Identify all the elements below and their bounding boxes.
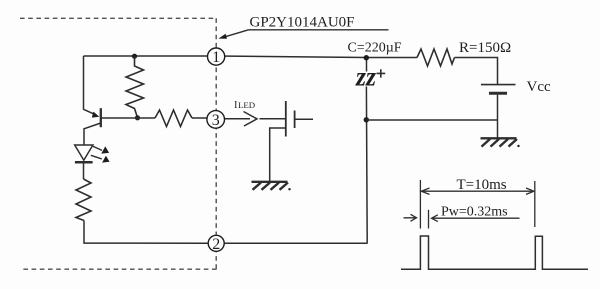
transistor Q1 emitter arrowhead (92, 112, 100, 118)
ground left bar (252, 181, 288, 183)
sensor boundary dashed bottom (23, 268, 217, 270)
wire junction to battery leg (367, 119, 498, 121)
LED D1 triangle (75, 145, 93, 160)
pin 3 circle (207, 111, 225, 129)
sensor boundary dashed vertical (215, 18, 217, 269)
transistor Q1 emitter (84, 109, 97, 115)
wire R2 to pin3 (192, 117, 208, 119)
resistor R2 base (155, 110, 192, 127)
svg-text:R=150Ω: R=150Ω (459, 40, 511, 56)
capacitor C1 plus sign (377, 69, 386, 77)
node junction dot base (135, 115, 140, 120)
node junction dot C top (364, 55, 369, 60)
capacitor C1 top lead (366, 58, 368, 72)
ground right bar (481, 137, 517, 139)
node junction dot mid (364, 117, 369, 122)
battery BT1 long plate (481, 84, 516, 86)
wire arrow to Q2 gate (260, 118, 286, 120)
T arrowhead right (526, 188, 534, 194)
ILED arrowhead open (244, 112, 258, 127)
Pw arrow right-pointing (404, 214, 417, 221)
svg-text:LED: LED (238, 100, 255, 110)
LED D1 emission arrow 2 (91, 155, 102, 159)
svg-text:3: 3 (212, 112, 220, 129)
svg-text:C=220µF: C=220µF (348, 41, 402, 56)
resistor R3 (76, 179, 91, 221)
svg-text:GP2Y1014AU0F: GP2Y1014AU0F (250, 15, 355, 31)
battery BT1 short plate (489, 92, 507, 95)
label leader underline (249, 29, 389, 31)
wire LED to R3 (83, 162, 85, 179)
timing tick left (419, 180, 421, 229)
transistor Q1 bar (100, 108, 102, 127)
wire R4 to battery (455, 58, 498, 85)
wire bottom to pin2 (84, 221, 208, 244)
transistor Q2 long bar (285, 101, 287, 137)
svg-text:Vcc: Vcc (527, 79, 551, 95)
label leader arrowhead (219, 34, 228, 39)
pin 2 circle (208, 235, 224, 251)
LED D1 emission arrow 1 (93, 146, 102, 150)
ILED arrow wire (225, 118, 251, 120)
label leader line (225, 30, 249, 37)
wire Q2 to ground (270, 128, 286, 181)
svg-text:1: 1 (212, 49, 220, 66)
transistor Q2 right stub (295, 118, 313, 120)
transistor Q1 base wire (101, 117, 155, 119)
svg-text:zz: zz (355, 62, 376, 92)
transistor Q1 collector (84, 123, 101, 145)
svg-text:T=10ms: T=10ms (457, 177, 507, 193)
LED D1 cathode bar (75, 161, 93, 164)
ground right hatches (482, 139, 518, 147)
resistor R1 internal pull-up (126, 56, 144, 118)
wire top rail pin1 to C junction (84, 56, 418, 58)
timing tick pw (428, 210, 430, 229)
svg-text:2: 2 (212, 236, 220, 253)
wire pin2 to riser (225, 242, 368, 244)
T arrow line (421, 190, 534, 192)
wire battery to ground (497, 95, 499, 138)
T arrowhead left (421, 188, 429, 194)
resistor R4 150ohm (417, 49, 455, 66)
node junction dot R1 top (132, 54, 137, 59)
transistor Q2 short bar (294, 111, 296, 129)
Pw arrow left-pointing with line (432, 215, 520, 222)
timing waveform (401, 236, 588, 269)
capacitor C1 bottom lead riser (365, 87, 368, 244)
timing tick right (534, 181, 536, 227)
ground left hatches (253, 183, 289, 190)
svg-text:Pw=0.32ms: Pw=0.32ms (441, 205, 508, 220)
sensor boundary dashed top (20, 17, 217, 19)
pin 1 circle (208, 48, 225, 65)
wire left rail (83, 56, 85, 110)
